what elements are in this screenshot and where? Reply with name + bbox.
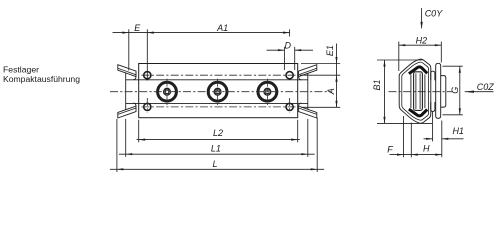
section: clamp outer profile <box>399 59 431 123</box>
section centerline <box>389 91 453 93</box>
roller 3 <box>258 82 277 101</box>
svg-text:C0Z: C0Z <box>477 82 495 92</box>
dimension F and H <box>390 116 442 157</box>
section: roller V-ring top <box>409 67 427 74</box>
section: roller V-ring bottom <box>409 109 427 116</box>
dimension L <box>110 118 324 173</box>
section: rail outer bar <box>436 63 441 118</box>
dimension H1 <box>424 112 464 157</box>
dimension H2 <box>399 42 442 72</box>
mounting hole bottom-left <box>144 103 151 110</box>
svg-text:D: D <box>284 41 291 51</box>
svg-text:G: G <box>450 87 460 94</box>
slot edge lower <box>126 102 308 104</box>
dimension L2 <box>137 120 300 143</box>
dimension E1 and A (vertical) <box>300 44 340 108</box>
COZ leader <box>465 91 494 93</box>
svg-text:F: F <box>387 144 393 154</box>
svg-text:H2: H2 <box>416 35 428 45</box>
section: clamp inner sheet line <box>402 62 429 120</box>
section: rail web <box>441 76 446 108</box>
svg-text:Kompaktausführung: Kompaktausführung <box>3 74 80 84</box>
section: rail inner finger top <box>431 71 435 80</box>
section: rail inner finger bottom <box>431 102 435 112</box>
clamp tab top-left <box>118 65 136 77</box>
svg-text:H1: H1 <box>452 126 464 136</box>
base plate <box>139 64 298 118</box>
clamp connector right <box>307 73 309 110</box>
svg-text:C0Y: C0Y <box>425 8 444 18</box>
dimension E and A1 <box>113 29 290 80</box>
mounting hole top-right <box>286 72 293 79</box>
svg-text:L: L <box>212 159 217 169</box>
section: axle <box>414 72 423 111</box>
roller 1 <box>158 82 177 101</box>
COY leader <box>421 8 423 28</box>
clamp tab bottom-left <box>118 106 136 118</box>
centerlines main view <box>110 75 331 113</box>
dimension D <box>267 47 314 70</box>
dimension B1 <box>377 60 432 123</box>
clamp tab top-right <box>299 65 317 77</box>
svg-text:A1: A1 <box>216 23 228 33</box>
clamp tab bottom-right <box>299 106 317 118</box>
svg-text:E: E <box>134 23 141 33</box>
svg-text:L1: L1 <box>211 144 221 154</box>
section: clamp cavity walls <box>410 75 412 109</box>
svg-text:L2: L2 <box>213 128 223 138</box>
svg-text:E1: E1 <box>325 45 335 56</box>
mounting hole bottom-right <box>286 103 293 110</box>
svg-text:H: H <box>423 144 430 154</box>
clamp connector left <box>125 73 127 110</box>
dimension G <box>443 66 463 115</box>
mounting hole top-left <box>144 72 151 79</box>
roller 2 <box>208 82 227 101</box>
svg-text:A: A <box>326 88 336 95</box>
dimension L1 <box>119 119 315 157</box>
slot edge upper <box>126 79 308 81</box>
svg-text:Festlager: Festlager <box>3 64 39 74</box>
svg-text:B1: B1 <box>372 79 382 90</box>
title text block <box>3 64 80 84</box>
